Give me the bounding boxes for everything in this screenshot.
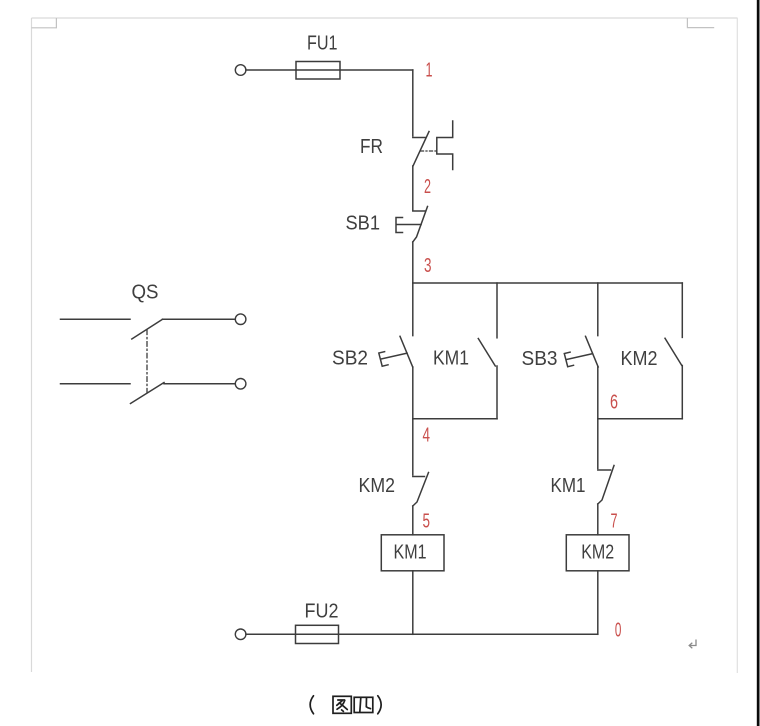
- switch QS pole 2 terminal: [235, 379, 246, 390]
- svg-text:KM2: KM2: [621, 348, 658, 370]
- page border left: [31, 18, 33, 672]
- page border top: [32, 17, 738, 19]
- svg-text:FU2: FU2: [305, 601, 339, 623]
- coil KM1: [381, 535, 444, 571]
- svg-text:KM1: KM1: [433, 348, 469, 370]
- wire SB2 drop: [412, 283, 414, 336]
- svg-text:KM1: KM1: [394, 542, 427, 564]
- wire KM2 NC to coil KM1: [412, 506, 414, 535]
- black edge strip: [757, 0, 760, 726]
- svg-text:SB1: SB1: [346, 213, 381, 235]
- caption (图四): [310, 696, 381, 714]
- pushbutton SB3 (NO): [564, 336, 598, 367]
- switch QS pole 2 blade: [131, 383, 165, 404]
- wire bottom bus: [339, 633, 598, 635]
- svg-text:7: 7: [611, 511, 618, 533]
- switch QS pole 1 blade: [132, 319, 163, 339]
- fuse FU2: [296, 625, 339, 643]
- wire SB3 down through node 6: [597, 367, 599, 469]
- svg-text:SB2: SB2: [332, 348, 368, 370]
- coil KM2: [566, 535, 629, 571]
- wire SB3 drop: [597, 283, 599, 336]
- svg-text:1: 1: [426, 60, 433, 82]
- wire coil KM1 to bus: [412, 571, 414, 635]
- svg-text:KM2: KM2: [581, 542, 614, 564]
- terminal circle L2: [235, 629, 246, 640]
- contact KM1 (NC interlock): [598, 466, 614, 505]
- wire KM1 aux drop: [496, 283, 498, 338]
- contact KM2 (NC interlock): [413, 473, 429, 507]
- svg-text:KM2: KM2: [359, 475, 396, 497]
- wire KM1 aux down: [496, 366, 498, 419]
- svg-text:KM1: KM1: [551, 475, 586, 497]
- wire coil KM2 to bus: [597, 571, 599, 635]
- switch QS pole 1 wire left: [61, 318, 131, 320]
- wire FU1 to corner: [340, 69, 413, 71]
- svg-text:6: 6: [610, 392, 618, 414]
- switch QS pole 2 wire left: [61, 383, 131, 385]
- svg-text:4: 4: [423, 425, 431, 447]
- pushbutton SB2 (NO): [379, 336, 413, 367]
- svg-text:5: 5: [423, 511, 431, 533]
- wire corner down to FR: [412, 70, 414, 136]
- svg-text:2: 2: [424, 176, 431, 198]
- page border right: [736, 18, 738, 673]
- svg-text:QS: QS: [132, 282, 159, 304]
- switch QS pole 2 wire right: [164, 383, 235, 385]
- switch QS pole 1 terminal: [235, 314, 246, 325]
- wire KM2 aux drop: [681, 283, 683, 337]
- wire node 3 bus: [413, 282, 683, 284]
- fuse FU1: [296, 62, 340, 80]
- wire node 4 down to KM2 NC: [412, 419, 414, 475]
- svg-text:0: 0: [615, 620, 622, 642]
- contact KM2 (NO aux): [665, 338, 682, 365]
- wire L1 to FU1: [246, 69, 296, 71]
- svg-text:FR: FR: [360, 136, 383, 158]
- wire join KM1 branch: [413, 418, 497, 420]
- wire FR to SB1: [412, 166, 414, 210]
- terminal circle L1: [235, 65, 246, 76]
- wire KM2 aux down: [681, 366, 683, 419]
- svg-text:3: 3: [424, 255, 432, 277]
- wire KM1 NC to coil KM2: [597, 504, 599, 535]
- wire SB1 to node 3: [412, 242, 414, 283]
- paragraph mark: [689, 640, 696, 649]
- table handle top-right: [687, 18, 714, 28]
- wire L2 to FU2: [246, 633, 296, 635]
- wire SB2 to node 4: [412, 367, 414, 419]
- switch QS link: [146, 330, 148, 393]
- svg-text:SB3: SB3: [522, 348, 558, 370]
- svg-text:FU1: FU1: [307, 33, 338, 55]
- switch QS pole 1 wire right: [163, 318, 236, 320]
- contact KM1 (NO aux): [478, 339, 495, 367]
- wire join KM2 branch: [598, 418, 683, 420]
- thermal overload contact FR: [413, 121, 453, 170]
- table handle top-left: [32, 18, 57, 28]
- pushbutton SB1 (NC): [396, 207, 428, 243]
